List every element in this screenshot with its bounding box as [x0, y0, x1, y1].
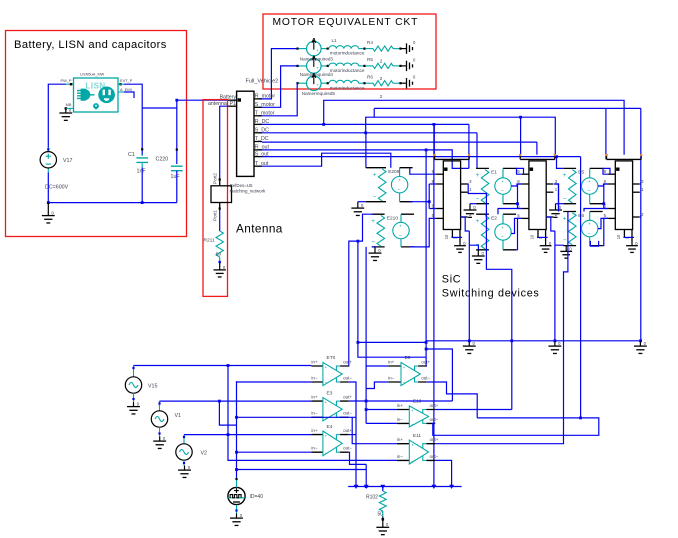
wire pin8 feed leg2 [518, 183, 522, 185]
wire module1 pin2 stair [461, 217, 470, 231]
wire carrier to E4 in- [237, 451, 312, 453]
wire R_DC bus [262, 123, 469, 125]
svg-text:E210: E210 [387, 216, 399, 222]
svg-text:motorinductance: motorinductance [330, 51, 365, 56]
wire module2 pin3 to E6 [554, 184, 558, 212]
svg-text:R5: R5 [367, 57, 373, 62]
svg-text:ET0: ET0 [327, 355, 336, 361]
svg-text:−: − [501, 234, 504, 240]
sine source V2 [183, 435, 185, 444]
svg-text:+: + [371, 218, 375, 225]
svg-text:2: 2 [380, 59, 383, 64]
svg-text:in+: in+ [397, 437, 404, 442]
svg-text:10: 10 [616, 234, 621, 239]
wire LISN to vehicle block [177, 99, 228, 101]
svg-text:+: + [476, 172, 480, 179]
svg-text:in+: in+ [397, 403, 404, 408]
svg-text:out−: out− [343, 411, 352, 416]
svg-text:−: − [476, 195, 480, 202]
antenna section box [203, 100, 228, 297]
svg-text:motorinductance: motorinductance [330, 68, 365, 73]
sine source V15 [133, 366, 135, 377]
wire S_DC bus [262, 132, 477, 134]
svg-text:motorinductance: motorinductance [330, 85, 365, 90]
svg-text:+: + [325, 400, 328, 405]
wire V17 to ground bus [47, 173, 49, 203]
wire S_out run [262, 156, 581, 158]
svg-text:out−: out− [430, 454, 439, 459]
svg-text:−: − [325, 450, 328, 455]
wire pulse ground [236, 505, 238, 514]
ground bus lower [426, 340, 641, 342]
svg-text:−: − [411, 422, 414, 427]
svg-text:in−: in− [311, 375, 318, 380]
svg-text:−: − [371, 239, 375, 246]
svg-text:+: + [403, 365, 406, 370]
svg-text:Port1: Port1 [213, 210, 218, 221]
wire matching network to R211 [219, 210, 221, 231]
svg-text:+: + [325, 433, 328, 438]
wire E9 out- stair [427, 382, 477, 418]
svg-text:EVT_P: EVT_P [120, 78, 133, 83]
ground E5 [556, 203, 564, 205]
ground right motor row 1 [401, 48, 407, 50]
svg-text:E10: E10 [413, 399, 422, 405]
svg-text:+: + [411, 408, 414, 413]
wire E1 top to module2 pin9 [516, 168, 522, 174]
wire ground link E9 out+ [358, 341, 426, 343]
svg-text:out+: out+ [430, 437, 439, 442]
svg-text:V17: V17 [63, 158, 72, 164]
ground right motor row 3 [401, 82, 407, 84]
svg-text:+: + [325, 365, 328, 370]
wire E6 bottom to pin5 [603, 218, 608, 245]
svg-text:PW_P: PW_P [60, 78, 71, 83]
wire E6 bottom stub [590, 241, 598, 246]
wire V1 ground [159, 427, 161, 436]
ground under V17 [47, 203, 49, 211]
wire module2 pin6 to E2 bar [498, 209, 522, 215]
svg-text:in−: in− [388, 375, 395, 380]
svg-text:R102: R102 [366, 495, 378, 501]
svg-text:in+: in+ [311, 395, 318, 400]
svg-text:2: 2 [380, 76, 383, 81]
inductor L3 motor row 3 [329, 80, 359, 83]
svg-text:R4: R4 [367, 40, 373, 45]
wire V2 to E4 in+ [184, 434, 311, 436]
svg-text:V2: V2 [201, 451, 208, 457]
wire E210 bottom to pin5 [410, 218, 436, 247]
svg-text:Namerrequired4: Namerrequired4 [300, 72, 334, 77]
wire probe2 to S_motor [262, 66, 297, 107]
wire E209 top to pin9 [410, 168, 436, 175]
wire C1 to bus [141, 167, 143, 202]
svg-text:in−: in− [311, 411, 318, 416]
motor equivalent circuit box [263, 14, 436, 89]
wire E6 out to module3 pin5 [598, 218, 608, 228]
wire E5 top to module3 pin9 [603, 168, 610, 174]
wire leg1 source riser [468, 231, 470, 341]
wire pin6 feed leg3 [604, 208, 608, 210]
ground under V15 [127, 402, 140, 414]
svg-text:out−: out− [343, 375, 352, 380]
wire pulse to carrier net [236, 478, 238, 488]
wire E1 top to module2 pin9 [516, 168, 524, 174]
svg-text:in+: in+ [311, 428, 318, 433]
svg-text:E209: E209 [388, 169, 400, 175]
svg-text:E1: E1 [491, 170, 497, 176]
svg-text:+: + [373, 172, 377, 179]
wire E1 out to module2 pin8 [511, 184, 522, 186]
svg-text:−: − [373, 193, 377, 200]
svg-text:in+: in+ [388, 359, 395, 364]
svg-text:−: − [403, 380, 406, 385]
wire leg3 bar left feed [605, 108, 607, 159]
SiC module X2 [520, 158, 555, 160]
SiC module X3 [607, 158, 642, 160]
wire T_DC to leg2 center [536, 142, 538, 155]
ground E6 [565, 246, 567, 248]
svg-text:E9: E9 [405, 355, 411, 361]
svg-text:matching_network: matching_network [230, 188, 266, 193]
svg-text:+: + [588, 180, 591, 185]
wire leg3 right drop [640, 108, 642, 340]
wire pin8 feed leg3 [604, 183, 608, 185]
wire ET0 out- to bus riser [349, 382, 356, 487]
svg-text:MOTOR EQUIVALENT CKT: MOTOR EQUIVALENT CKT [273, 17, 419, 28]
svg-text:E3: E3 [327, 390, 333, 396]
ground E1 [470, 203, 476, 205]
wire module2 pin3 to E6 [554, 184, 558, 212]
wire source ref riser [365, 247, 367, 424]
svg-text:V1: V1 [175, 413, 182, 419]
wire R_DC riser to leg3 center [324, 100, 624, 154]
ground right motor row 2 [401, 65, 407, 67]
wire E10 in+ feed [366, 409, 397, 411]
svg-text:Switching devices: Switching devices [442, 288, 540, 300]
wire cap link [142, 107, 177, 109]
wire carrier lower branch [237, 469, 367, 471]
inductor L2 motor row 2 [329, 63, 359, 66]
wire E5 top to module3 pin9 [603, 168, 608, 174]
svg-text:in+: in+ [311, 359, 318, 364]
inductor L1 motor row 1 [329, 46, 359, 49]
svg-text:Antenna: Antenna [236, 222, 283, 236]
comparator output bus [348, 486, 461, 488]
svg-text:in−: in− [397, 454, 404, 459]
svg-text:+: + [398, 179, 401, 184]
wire S_DC drop to E1 bar [476, 133, 478, 169]
wire E209 bar feed [365, 133, 367, 168]
wire pin6 feed leg2 [518, 208, 522, 210]
svg-text:50: 50 [216, 252, 222, 258]
svg-text:out+: out+ [430, 403, 439, 408]
svg-text:E2: E2 [491, 216, 497, 222]
wire E3 out+ ref line [349, 400, 453, 402]
wire E10 out- loop to SiC [433, 418, 599, 435]
svg-text:Port2: Port2 [213, 173, 218, 184]
wire module3 pin2 stub [639, 216, 642, 218]
svg-text:2: 2 [380, 94, 383, 99]
svg-text:−: − [588, 231, 591, 237]
wire R_out run [262, 150, 469, 169]
svg-text:Battery, LISN and capacitors: Battery, LISN and capacitors [14, 39, 167, 51]
svg-text:−: − [501, 188, 504, 194]
svg-text:10: 10 [444, 234, 449, 239]
wire ref bus horizontal [358, 241, 426, 357]
svg-text:+: + [563, 172, 567, 179]
ground bus G3 [634, 342, 647, 354]
ground bus G1 [463, 342, 476, 354]
svg-text:10: 10 [530, 234, 535, 239]
svg-text:+: + [316, 65, 319, 70]
wire module3 pin6 to E6 bar [584, 209, 608, 212]
wire R_DC drop to bar1 right and E1 [468, 124, 470, 168]
wire leg2 source riser [554, 231, 556, 341]
wire DC link to leg3 right [374, 107, 641, 109]
svg-text:1uF: 1uF [171, 174, 181, 180]
wire V15-V2 riser to E11 in- [228, 366, 397, 461]
ground under LISN MB pin [66, 107, 74, 109]
svg-text:E11: E11 [413, 433, 422, 439]
svg-text:L1: L1 [332, 38, 338, 43]
wire carrier to ET0 in- [237, 380, 312, 383]
wire E11 out- to bus [435, 460, 452, 486]
wire C220 to bus [176, 171, 178, 203]
svg-text:out+: out+ [343, 395, 352, 400]
ground E2 [477, 250, 479, 252]
ground under V2 [178, 466, 191, 478]
svg-text:−: − [397, 187, 400, 193]
svg-text:in−: in− [311, 446, 318, 451]
svg-text:A: A [311, 36, 316, 45]
current probe row 1 [307, 41, 322, 56]
ground bus G2 [548, 342, 561, 354]
current probe row 2 [307, 59, 322, 74]
wire E5 out to module3 pin8 [598, 184, 608, 186]
wire E10 out+ run [435, 409, 512, 411]
wire leg2 gate column [517, 184, 519, 209]
wire S_out long drop [580, 157, 582, 418]
wire ET0 out+ riser to E210 feed [349, 214, 374, 366]
svg-text:in−: in− [397, 417, 404, 422]
svg-text:−: − [411, 459, 414, 464]
svg-text:+: + [563, 215, 567, 222]
wire S_out drop to E5 bar [557, 157, 564, 169]
wire V15 to ET0 in+ [134, 365, 312, 367]
svg-text:−: − [563, 237, 567, 244]
ground under R102 [376, 523, 389, 535]
wire E2 out to module2 pin5 [511, 218, 522, 233]
wire V1 to E3 in+ [160, 400, 312, 402]
svg-text:E6: E6 [578, 213, 584, 219]
svg-text:ID=40: ID=40 [250, 494, 264, 500]
wire R211 to ground [219, 261, 221, 263]
svg-text:−: − [325, 380, 328, 385]
svg-text:+: + [476, 218, 480, 225]
wire module1 pin3 jog [468, 184, 487, 250]
wire leg1 gate column [428, 184, 430, 209]
wire riser branch to ref drop [426, 349, 452, 401]
wire battery to LISN PW_P [48, 84, 66, 152]
wire leg2 bar left feed [520, 117, 522, 155]
wire E11 in+ feed [352, 417, 397, 443]
svg-text:R211: R211 [204, 238, 215, 244]
svg-text:−: − [563, 195, 567, 202]
svg-text:+: + [501, 180, 504, 185]
svg-text:+: + [501, 226, 504, 231]
wire V2 ground [183, 460, 185, 465]
svg-text:Namerrequired5: Namerrequired5 [302, 91, 336, 96]
ground under V1 [153, 437, 166, 449]
wire module3 pin3 stub [639, 183, 642, 185]
wire T_DC bus [262, 141, 537, 143]
svg-text:+: + [316, 83, 319, 88]
wire pin8 feed leg1 [429, 183, 436, 185]
wire E2 bottom to pin5 [516, 218, 522, 249]
svg-text:MB: MB [66, 102, 72, 107]
wire leg3 gate column [603, 184, 605, 209]
svg-text:+: + [399, 224, 402, 229]
svg-text:−: − [588, 188, 591, 194]
svg-text:V15: V15 [148, 384, 157, 390]
svg-text:out−: out− [430, 417, 439, 422]
wire module3 pin2 stub [639, 216, 642, 218]
ground under pulse source [230, 514, 243, 526]
svg-text:out+: out+ [343, 428, 352, 433]
wire E9 in+ feed [366, 365, 388, 367]
wire E9 out+ riser [425, 150, 428, 366]
svg-text:RefDes=U5: RefDes=U5 [230, 183, 253, 188]
wire long drop to comparator bus [433, 124, 435, 486]
node bus bottom battery [48, 202, 177, 204]
svg-text:C1: C1 [128, 152, 135, 158]
wire LISN A_EMI hook [118, 91, 124, 93]
wire probe1 to R_motor [262, 49, 297, 99]
svg-text:SiC: SiC [442, 274, 462, 286]
wire E1 bottom out [516, 203, 518, 205]
wire module2 pin2 stair [546, 217, 555, 231]
wire R102 to ground [382, 511, 384, 517]
svg-text:LISN5uH_MW: LISN5uH_MW [80, 73, 105, 77]
sine source V1 [159, 401, 161, 411]
wire E11 out+ to SiC riser [435, 212, 568, 444]
wire antenna_P1 to matching network [220, 106, 228, 178]
wire leg1 bottom branch to E2 [469, 245, 478, 250]
wire E10 in- feed [366, 422, 397, 424]
wire S_DC riser to leg2 [366, 117, 556, 155]
wire E209 bottom out [410, 201, 429, 203]
svg-text:out+: out+ [343, 359, 352, 364]
svg-text:−: − [325, 416, 328, 421]
svg-text:−: − [399, 233, 402, 239]
wire module3 pin3 stub [639, 183, 642, 185]
svg-text:+: + [316, 48, 319, 53]
wire V1 branch T [219, 401, 236, 425]
voltage source V17 [47, 148, 49, 173]
LISN U2 [74, 78, 119, 112]
ground E209 [358, 201, 366, 203]
svg-text:E4: E4 [327, 424, 333, 430]
svg-text:1nF: 1nF [137, 169, 147, 175]
svg-text:R6: R6 [367, 75, 373, 80]
wire H108 T-drop [373, 108, 375, 117]
pulse source VtPulse ID=40 [228, 487, 245, 504]
wire E4 out+ to bus riser [349, 434, 356, 436]
svg-text:C220: C220 [156, 157, 169, 163]
wire V15 ground [133, 393, 135, 402]
wire E2 bottom link [486, 250, 511, 410]
wire leg2 bottom branch to E6 [555, 244, 563, 246]
wire E9 in- hook [366, 382, 388, 389]
svg-text:E5: E5 [578, 170, 584, 176]
wire LISN EVT_P to C1 [118, 83, 124, 85]
battery LISN section box [6, 31, 187, 237]
svg-text:out−: out− [343, 446, 352, 451]
svg-text:Full_Vehicle2: Full_Vehicle2 [246, 78, 279, 84]
wire E4 out- hook [349, 452, 367, 464]
svg-text:+: + [588, 222, 591, 227]
wire carrier to E3 in- band [237, 416, 357, 418]
wire probe3 to T_motor [262, 83, 298, 116]
svg-text:out−: out− [421, 375, 430, 380]
wire pin6 feed leg1 [429, 208, 436, 210]
current probe row 3 [307, 76, 322, 91]
SiC module X1 [435, 158, 470, 160]
wire T_out run [262, 153, 391, 168]
ground under R211 [214, 266, 226, 277]
svg-text:+: + [411, 443, 414, 448]
wire leg1 bar left feed [433, 124, 435, 154]
wire E5 bottom out [603, 203, 604, 205]
ground E210 [372, 246, 377, 248]
svg-text:Namerrequired3: Namerrequired3 [300, 56, 334, 61]
